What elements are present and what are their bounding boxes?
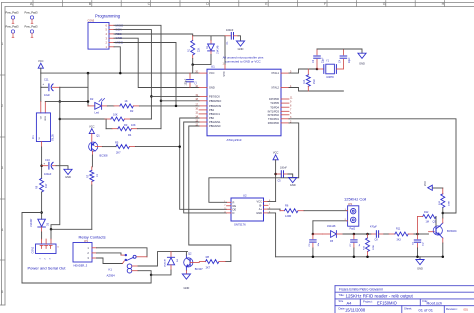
title block frame	[335, 285, 474, 287]
resistor R13	[441, 194, 445, 208]
svg-text:VO: VO	[39, 116, 41, 119]
svg-text:125KHz RFID reader - relè outp: 125KHz RFID reader - relè output	[346, 294, 414, 299]
ic U2 left pins	[227, 201, 232, 203]
junction vcc-a	[87, 72, 90, 75]
wire rxd loop	[209, 123, 299, 202]
svg-text:R2: R2	[130, 109, 134, 113]
svg-text:R8: R8	[206, 255, 210, 259]
wire u2 gnd net	[268, 213, 276, 257]
svg-text:Pow_Pad3: Pow_Pad3	[25, 11, 39, 15]
junction mosi	[175, 105, 178, 108]
resistor R12	[417, 217, 419, 235]
diode D3	[38, 219, 46, 226]
wire VCC-prog	[114, 47, 120, 73]
wire r4-miso	[137, 128, 161, 130]
wire q3 base row	[418, 233, 429, 235]
wire det row1	[343, 233, 371, 235]
junction r10	[366, 233, 369, 236]
svg-text:U2: U2	[243, 194, 247, 198]
wire con2 pin3	[50, 229, 52, 239]
svg-text:VCC: VCC	[273, 151, 279, 155]
capacitor C5	[276, 173, 282, 175]
power VCC2	[89, 129, 94, 134]
svg-text:R: R	[233, 200, 235, 204]
wire C1 to gnd	[238, 36, 241, 41]
svg-text:1M: 1M	[426, 221, 429, 224]
wire r12-q3base	[435, 217, 437, 230]
svg-text:Size: Size	[339, 300, 344, 303]
ic IC1 78L05	[36, 113, 50, 142]
svg-text:4R7: 4R7	[45, 183, 48, 188]
svg-text:D: D	[233, 211, 235, 215]
capacitor C6	[312, 234, 314, 239]
junction led-vert	[87, 72, 90, 75]
svg-text:22pF: 22pF	[348, 57, 351, 63]
resistor R2	[114, 105, 120, 107]
svg-text:78L05: 78L05	[52, 134, 55, 141]
svg-text:2: 2	[1, 104, 3, 108]
resistor R8	[205, 260, 219, 264]
svg-text:IC1: IC1	[32, 135, 35, 139]
svg-text:Revision:: Revision:	[446, 307, 458, 311]
power VCC4	[428, 185, 433, 190]
svg-text:connected to GND or VCC: connected to GND or VCC	[225, 59, 261, 63]
frame column ticks	[32, 1, 34, 7]
svg-text:22K: 22K	[198, 47, 201, 52]
capacitor C1	[225, 35, 231, 37]
svg-text:INT1/PD3: INT1/PD3	[268, 109, 280, 113]
svg-text:15/11/2008: 15/11/2008	[345, 308, 366, 313]
svg-text:100nF: 100nF	[280, 167, 287, 170]
svg-text:Ficara Emilio Pietro Giovanni: Ficara Emilio Pietro Giovanni	[339, 288, 383, 292]
svg-text:PB5/MOSI: PB5/MOSI	[209, 104, 222, 108]
svg-text:C: C	[148, 2, 151, 6]
relay contacts K1	[125, 254, 127, 256]
wire led feed	[60, 102, 88, 106]
wire reg chain bottom	[41, 142, 43, 148]
wire GND-prog	[114, 38, 199, 87]
svg-text:GND: GND	[65, 175, 71, 179]
wire D1 to VCC node	[193, 55, 211, 65]
svg-text:PB3/OC1: PB3/OC1	[209, 112, 221, 116]
svg-text:VCC: VCC	[209, 71, 215, 75]
svg-text:GND: GND	[256, 211, 262, 215]
wire q2 base	[190, 261, 199, 263]
resistor R4	[106, 128, 112, 130]
ground gnd5	[419, 257, 421, 260]
svg-text:GND: GND	[44, 116, 46, 121]
svg-text:100K: 100K	[448, 200, 450, 206]
svg-text:Title:: Title:	[339, 293, 345, 297]
svg-text:ICP/PD6: ICP/PD6	[269, 97, 280, 101]
svg-text:RES: RES	[222, 72, 225, 77]
svg-text:GND: GND	[209, 86, 215, 90]
svg-text:PB6/MISO: PB6/MISO	[209, 99, 221, 103]
wire coil a	[138, 252, 188, 266]
wire mosi row	[139, 105, 199, 107]
wire q3 collector	[440, 223, 443, 226]
svg-text:120R: 120R	[285, 214, 291, 218]
svg-text:GND: GND	[359, 62, 365, 66]
svg-text:Q1: Q1	[96, 134, 100, 138]
svg-text:K1: K1	[109, 267, 113, 271]
wire r11-q3	[414, 233, 418, 235]
wire VCC rail	[51, 102, 60, 230]
svg-text:R14: R14	[303, 79, 306, 84]
junction det1	[312, 233, 315, 236]
svg-text:RXD/PD0: RXD/PD0	[268, 121, 280, 125]
wire xtal1	[289, 69, 317, 73]
wire reg chain top	[40, 73, 42, 101]
svg-text:PB0/AIN0: PB0/AIN0	[209, 124, 221, 128]
svg-text:XTAL1: XTAL1	[271, 71, 279, 75]
wire led-r2	[107, 105, 114, 107]
svg-text:3: 3	[1, 166, 3, 170]
svg-text:PB4: PB4	[209, 108, 214, 112]
wire coil drive B	[313, 220, 347, 222]
wire txd long	[289, 119, 456, 213]
junction miso-pb6	[160, 100, 163, 103]
svg-text:GND: GND	[238, 47, 244, 51]
svg-text:100nF: 100nF	[185, 78, 188, 85]
svg-text:Q3: Q3	[433, 220, 437, 224]
junction c10	[40, 164, 43, 167]
wire supply rail bottom	[22, 275, 151, 283]
diode D1	[210, 41, 212, 45]
wire r13 top	[432, 187, 443, 189]
svg-text:Led: Led	[95, 110, 100, 114]
wire chain to D3	[41, 192, 43, 219]
svg-text:TXD/PD1: TXD/PD1	[268, 117, 280, 121]
ic U2 right pins	[264, 201, 269, 203]
wire r7 bottom	[91, 185, 93, 229]
junction vcc-b	[119, 72, 122, 75]
wire relay t1	[97, 253, 122, 255]
svg-text:PB2: PB2	[209, 116, 214, 120]
svg-text:CON2: CON2	[32, 246, 35, 253]
junction c5	[274, 173, 277, 176]
wire vcc drop 88	[87, 73, 89, 101]
svg-text:10uF: 10uF	[44, 93, 50, 97]
ic U1 right pins	[281, 72, 289, 74]
wire xtal2	[289, 88, 343, 92]
svg-text:1N4007: 1N4007	[30, 218, 33, 227]
svg-text:Pad2: Pad2	[350, 227, 356, 230]
junction led2	[87, 100, 90, 103]
wire r4 left up	[105, 119, 107, 129]
wire det gnd rail	[276, 256, 443, 258]
ic U1 left pins	[199, 72, 207, 74]
svg-text:D: D	[206, 2, 209, 6]
wire RES	[114, 34, 193, 36]
junction rail-top	[59, 100, 62, 103]
junction c7	[353, 233, 356, 236]
svg-text:001: 001	[464, 307, 469, 311]
svg-text:10K: 10K	[113, 112, 118, 116]
wire u2 vcc pin	[268, 201, 276, 203]
svg-text:C11: C11	[44, 77, 49, 81]
resistor R10 220K	[367, 234, 369, 238]
capacitor C3	[316, 49, 318, 55]
svg-text:1K: 1K	[124, 99, 127, 103]
ground gnd2	[358, 53, 366, 58]
power VCC1	[38, 63, 43, 68]
svg-text:3K3: 3K3	[397, 239, 402, 242]
capacitor C2	[189, 73, 191, 78]
power VCC3	[273, 155, 278, 160]
svg-text:4: 4	[1, 228, 3, 232]
svg-text:470pF: 470pF	[370, 226, 377, 229]
svg-text:125KHz Coil: 125KHz Coil	[344, 197, 366, 202]
wire rail bottom row	[51, 228, 92, 230]
wire R1 bottom	[192, 59, 194, 65]
capacitor C7	[353, 234, 355, 239]
wire con2 pin2	[45, 239, 47, 244]
svg-text:GND: GND	[184, 286, 190, 290]
svg-text:1: 1	[1, 42, 3, 46]
wire pb1 net	[184, 122, 227, 213]
wire c5 gnd	[288, 174, 293, 177]
svg-text:Relay Contacts: Relay Contacts	[79, 234, 106, 239]
svg-text:B-: B-	[259, 203, 262, 207]
svg-text:BC308: BC308	[100, 153, 108, 157]
pin RES top	[224, 65, 226, 70]
frame outer border	[2, 2, 474, 4]
svg-text:HEADER_3: HEADER_3	[74, 264, 88, 268]
svg-text:1N4148: 1N4148	[327, 225, 336, 228]
junction RES/R1	[191, 63, 194, 66]
wire r5 row	[135, 146, 179, 148]
wire pb2 net	[180, 118, 227, 209]
svg-text:INT0/PD2: INT0/PD2	[268, 113, 280, 117]
svg-text:Pow_Pad3: Pow_Pad3	[25, 25, 39, 29]
svg-text:VCC: VCC	[257, 200, 263, 204]
junction c9	[416, 233, 419, 236]
frame row ticks	[0, 74, 5, 76]
svg-text:Pow_Pad3: Pow_Pad3	[6, 25, 20, 29]
svg-text:22pF: 22pF	[321, 57, 324, 63]
svg-text:D2: D2	[90, 97, 94, 101]
svg-text:R5: R5	[115, 141, 119, 145]
svg-text:SN75176: SN75176	[234, 223, 246, 227]
ground gnd4	[289, 177, 297, 182]
wire d3 to con2	[41, 232, 43, 239]
capacitor C9	[417, 234, 419, 239]
svg-text:GND: GND	[417, 266, 423, 270]
svg-text:C10: C10	[45, 158, 50, 162]
svg-text:T0/PD4: T0/PD4	[270, 105, 279, 109]
wire coil b	[138, 271, 151, 275]
svg-text:VCC: VCC	[89, 124, 95, 128]
svg-text:PB1/AIN1: PB1/AIN1	[209, 120, 221, 124]
junction rail-r3	[59, 118, 62, 121]
relay pole	[133, 255, 136, 258]
ground gnd3	[64, 169, 72, 174]
svg-text:H: H	[442, 2, 445, 6]
svg-text:Power and Serial Out: Power and Serial Out	[28, 266, 67, 271]
wire d4 bottom	[151, 270, 171, 275]
svg-text:5: 5	[1, 290, 3, 294]
svg-text:Q2: Q2	[188, 251, 192, 255]
svg-text:R4: R4	[128, 133, 132, 137]
svg-text:R6: R6	[285, 203, 289, 207]
wire VCC row	[41, 72, 199, 74]
wire MOSI	[114, 43, 176, 106]
svg-text:01 of 01: 01 of 01	[419, 308, 434, 313]
diode D4	[170, 252, 172, 258]
svg-text:EF150MIO: EF150MIO	[377, 300, 397, 305]
junction coilb	[150, 274, 153, 277]
resistor R6	[268, 208, 280, 210]
junction rail dots	[312, 256, 315, 259]
wire r3-sck	[130, 118, 151, 120]
svg-text:RE: RE	[233, 204, 237, 208]
wire relay t2	[97, 258, 123, 264]
wire raw rail	[22, 213, 42, 284]
wire pb0 net	[189, 126, 231, 262]
svg-text:R3: R3	[124, 123, 128, 127]
svg-text:Sheet:: Sheet:	[404, 306, 412, 310]
svg-text:1N4148: 1N4148	[216, 45, 219, 54]
junction rail-bot	[50, 228, 53, 231]
svg-text:U1: U1	[211, 65, 215, 69]
svg-text:2K7: 2K7	[116, 151, 121, 155]
svg-text:1N4148: 1N4148	[164, 259, 166, 267]
junction sck-pb7	[150, 95, 153, 98]
junction chain-rail	[40, 211, 43, 214]
wire c11 corner	[59, 87, 61, 101]
svg-text:A4: A4	[347, 300, 353, 305]
svg-text:T1/PD5: T1/PD5	[270, 101, 279, 105]
junction xtal-c3	[316, 68, 319, 71]
wire c10 gnd	[56, 166, 68, 170]
wire c11 row right	[60, 86, 88, 88]
svg-text:VCC: VCC	[424, 181, 427, 186]
svg-text:2M2: 2M2	[313, 79, 316, 84]
svg-text:1K: 1K	[96, 174, 99, 177]
svg-text:ATtiny2313: ATtiny2313	[227, 138, 242, 142]
capacitor C4	[342, 49, 344, 55]
svg-text:PB7/SCK: PB7/SCK	[209, 95, 220, 99]
wire relay no	[97, 248, 148, 257]
svg-text:GND: GND	[290, 183, 296, 187]
ground gnd1	[236, 41, 244, 46]
wire miso-pb6 row	[161, 100, 199, 102]
wire q1 collector	[91, 151, 93, 155]
resistor R14	[307, 69, 309, 75]
svg-text:Root.sch: Root.sch	[427, 300, 443, 305]
wire VCC drop	[192, 65, 194, 74]
wire SCK	[114, 30, 151, 97]
svg-text:A+: A+	[259, 207, 263, 211]
wire xtal top	[317, 49, 362, 53]
svg-text:100nF: 100nF	[226, 28, 234, 32]
svg-text:R12: R12	[424, 211, 429, 214]
wire MISO	[114, 25, 161, 101]
svg-text:16MHz: 16MHz	[326, 76, 334, 79]
svg-text:Pow_Pad3: Pow_Pad3	[6, 11, 20, 15]
svg-text:AZ954: AZ954	[107, 274, 116, 278]
junction r5-pb2	[178, 145, 181, 148]
resistor R5	[116, 145, 129, 149]
wire q2 emitter	[185, 267, 187, 271]
wire RES net	[193, 36, 225, 65]
junction q3c	[442, 212, 445, 215]
svg-text:10K: 10K	[131, 123, 136, 127]
svg-text:Programming: Programming	[95, 13, 121, 18]
svg-text:BC546C: BC546C	[447, 229, 457, 233]
svg-text:BC337: BC337	[195, 267, 203, 271]
ground gnd6	[182, 274, 190, 279]
svg-text:XTAL2: XTAL2	[271, 86, 279, 90]
resistor R9 4R7	[40, 178, 44, 192]
svg-text:R11: R11	[396, 228, 401, 231]
wire q3 emitter	[440, 235, 443, 238]
resistor R1	[192, 36, 194, 41]
svg-text:VCC: VCC	[38, 59, 44, 63]
resistor R11	[384, 233, 389, 235]
svg-text:Project:: Project:	[363, 299, 373, 303]
resistor R7	[91, 167, 93, 171]
svg-text:100uF: 100uF	[44, 172, 52, 176]
svg-text:DE: DE	[233, 207, 237, 211]
wire gnd-pin row	[44, 102, 46, 113]
svg-text:G: G	[383, 2, 386, 6]
wire sck-pb7 row	[151, 95, 199, 97]
svg-text:2K7: 2K7	[206, 266, 211, 270]
resistor R3	[60, 118, 105, 120]
svg-text:220K: 220K	[373, 244, 375, 250]
wire q2 collector	[185, 255, 187, 258]
